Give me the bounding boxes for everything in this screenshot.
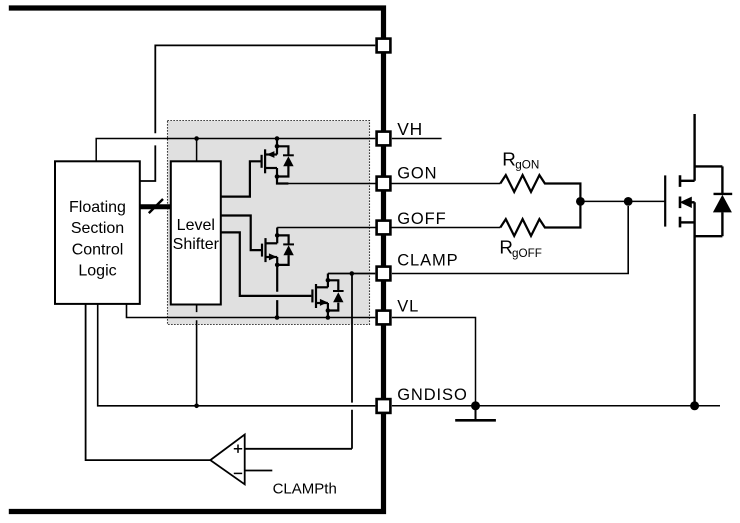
svg-text:gON: gON xyxy=(515,158,539,171)
svg-text:Floating: Floating xyxy=(69,199,126,216)
svg-text:GNDISO: GNDISO xyxy=(397,386,468,404)
svg-text:Control: Control xyxy=(72,241,124,258)
svg-text:Section: Section xyxy=(71,220,124,237)
svg-text:Logic: Logic xyxy=(78,263,116,280)
svg-text:Shifter: Shifter xyxy=(173,236,220,253)
svg-text:CLAMPth: CLAMPth xyxy=(273,481,337,498)
svg-text:R: R xyxy=(502,148,516,169)
svg-text:CLAMP: CLAMP xyxy=(397,252,458,270)
svg-text:VH: VH xyxy=(397,119,423,139)
svg-text:GON: GON xyxy=(397,164,437,182)
svg-text:Level: Level xyxy=(177,217,215,234)
svg-text:GOFF: GOFF xyxy=(397,210,446,228)
svg-text:gOFF: gOFF xyxy=(512,247,542,260)
svg-text:R: R xyxy=(499,236,513,257)
svg-text:VL: VL xyxy=(397,298,419,316)
